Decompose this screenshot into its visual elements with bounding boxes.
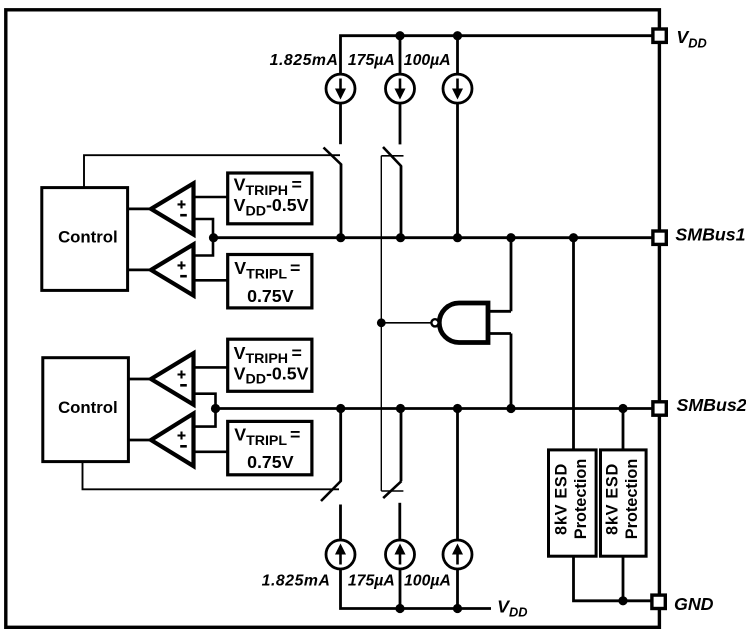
node SMBus2 NAND [506,404,515,413]
node SMBus1 I3 [453,233,462,242]
svg-text:175µA: 175µA [348,572,395,589]
wire comp1 output [127,207,152,210]
current source I1 1.825mA top [326,74,355,103]
svg-text:8kV ESD: 8kV ESD [604,463,622,535]
wire SMBus2 to S4 [339,409,342,482]
svg-text:Control: Control [58,398,118,417]
wire NAND control jog bottom [381,490,403,492]
wire SMBus1 rail [213,236,652,239]
wire NAND control jog top [381,155,403,157]
wire comp4 ref [194,450,228,453]
node bottom I6 [453,604,462,613]
current source I6 100uA bottom [443,540,472,569]
wire bottom VDD rail [341,569,492,609]
wire comp1 ref [194,196,228,199]
node junction VDD-I2 [395,31,404,40]
node junction VDD-I3 [453,31,462,40]
svg-text:0.75V: 0.75V [247,452,294,472]
comparator A4 [151,414,194,467]
svg-text:175µA: 175µA [348,52,395,69]
wire S1 to SMBus1 [340,164,343,238]
wire ESD2 to SMBus2 [622,409,625,451]
wire I1 bottom stub [339,103,342,144]
box VTRIPL2 [228,421,312,474]
wire comp4 output [127,439,152,442]
wire S2 to SMBus1 [400,166,403,238]
wire Control2 feedback [83,461,340,490]
node SMBus2 I5 [396,404,405,413]
current source I2 175uA top [386,74,415,103]
switch S2 lever [383,147,402,167]
wire S5 to I5 [398,503,401,541]
wire jog1 upper stub [194,219,214,256]
wire I5 bottom stub [399,569,402,609]
wire ESD1 to GND [574,556,652,601]
wire ESD2 to GND [622,556,625,601]
comparator A3 [151,353,194,405]
wire stub I2 top [399,36,402,75]
switch S4 lever [321,481,341,502]
svg-text:Protection: Protection [572,459,590,540]
svg-text:Protection: Protection [623,459,641,540]
wire NAND input down [510,334,513,409]
wire NAND input up [510,238,513,312]
wire SMBus2 to I6 [456,409,459,541]
wire comp3 ref [194,366,228,369]
wire stub I3 top [456,36,459,75]
svg-text:8kV ESD: 8kV ESD [553,463,571,535]
wire SMBus2 rail [216,407,652,410]
node SMBus1 ESD [569,233,578,242]
switch S1 lever [324,148,342,165]
pin SMBus1 [653,231,666,244]
comparator A1 [151,183,194,234]
node SMBus2 I6 [453,404,462,413]
wire SMBus2 to S5 [400,409,403,482]
box VTRIPH2 [228,339,312,391]
svg-text:SMBus1: SMBus1 [675,224,745,244]
wire comp3 output [127,378,152,381]
switch S5 lever [383,481,401,498]
node SMBus1 I1 [336,233,345,242]
node SMBus1 jog [209,233,218,242]
box VTRIPL1 [228,255,312,308]
NAND gate U2 [377,303,511,343]
pin VDD [653,29,666,42]
wire VDD top rail [341,36,653,75]
wire I6 bottom stub [456,569,459,609]
node bottom I5 [395,604,404,613]
svg-text:100µA: 100µA [404,572,451,589]
wire comp2 ref [194,279,228,282]
current source I4 1.825mA bottom [326,540,355,569]
wire NAND control vertical [380,156,382,491]
node SMBus2 ESD2 [618,404,627,413]
box ESD1 [549,450,597,556]
box VTRIPH1 [228,173,312,224]
current source I3 100uA top [443,74,472,103]
control block U1 [42,188,128,291]
wire I3 column to SMBus1 [456,103,459,238]
node GND junction [618,596,627,605]
svg-text:100µA: 100µA [404,52,451,69]
node SMBus2 jog [211,404,220,413]
svg-text:Control: Control [58,228,118,247]
svg-text:0.75V: 0.75V [247,286,294,306]
svg-text:1.825mA: 1.825mA [262,572,331,589]
comparator A2 [151,244,194,295]
svg-text:SMBus2: SMBus2 [677,395,746,415]
wire jog2 [194,394,216,427]
wire comp2 output [127,268,152,271]
node SMBus2 I4 [336,404,345,413]
svg-text:GND: GND [674,594,714,614]
box ESD2 [601,450,647,556]
current source I5 175uA bottom [386,540,415,569]
node SMBus1 I2 [396,233,405,242]
svg-text:1.825mA: 1.825mA [270,52,339,69]
wire ESD1 to SMBus1 [572,238,575,451]
wire S4 to I4 [339,505,342,541]
wire I2 bottom stub [399,103,402,144]
control block U3 [43,358,129,462]
pin GND [652,595,665,608]
node SMBus1 NAND [506,233,515,242]
wire Control1 feedback [84,155,340,188]
pin SMBus2 [653,402,666,415]
